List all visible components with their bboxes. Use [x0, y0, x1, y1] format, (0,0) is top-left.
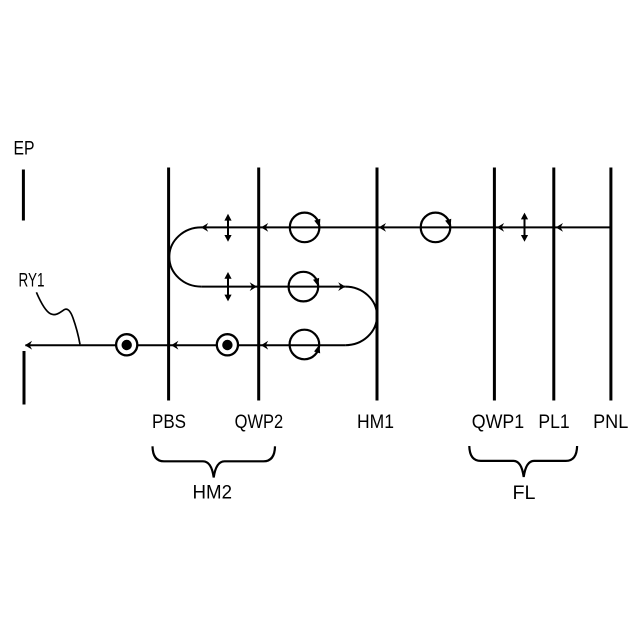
svg-text:EP: EP — [14, 139, 35, 160]
ray middle segment — [201, 286, 345, 288]
arrowhead top ray at HM1 — [379, 223, 386, 232]
circular polarization circle top-left — [290, 213, 323, 243]
svg-text:FL: FL — [513, 483, 536, 504]
element line HM1 — [376, 168, 379, 401]
ray bottom segment — [25, 344, 345, 346]
eye-point tick lower — [23, 351, 26, 405]
leader squiggle RY1 — [36, 292, 80, 344]
element line QWP1 — [493, 168, 496, 401]
circular polarization circle top-right — [421, 213, 454, 243]
svg-text:PNL: PNL — [593, 412, 628, 433]
polarization double-arrow middle between PBS QWP2 — [224, 272, 231, 301]
svg-text:RY1: RY1 — [19, 270, 45, 291]
ray U-turn arc left — [169, 227, 201, 286]
element line PBS — [167, 168, 170, 401]
arrowhead top ray at QWP2 — [261, 223, 268, 232]
element line PL1 — [552, 168, 555, 401]
svg-text:PBS: PBS — [152, 412, 186, 433]
circular polarization circle middle — [289, 272, 322, 302]
arrowhead bottom ray at PBS — [171, 341, 178, 350]
element line QWP2 — [257, 168, 260, 401]
dot-circle polarization symbol right — [217, 334, 238, 355]
ray top segment — [201, 226, 611, 228]
polarization double-arrow top between QWP1 PL1 — [521, 213, 528, 242]
arrowhead top ray at PL1 — [556, 223, 563, 232]
polarization double-arrow top between PBS QWP2 — [224, 214, 231, 242]
svg-text:PL1: PL1 — [538, 412, 569, 433]
dot-circle polarization symbol left — [116, 334, 137, 355]
arrowhead top ray at QWP1 — [497, 223, 504, 232]
eye-point tick upper — [22, 170, 25, 221]
svg-text:QWP1: QWP1 — [472, 412, 524, 433]
arrowhead top ray at arc start — [201, 223, 208, 232]
arrowhead middle ray before QWP2 — [250, 282, 257, 291]
arrowhead bottom ray at QWP2 — [261, 341, 268, 350]
circular polarization circle bottom — [290, 330, 323, 360]
ray U-turn arc right — [345, 287, 377, 346]
svg-text:HM1: HM1 — [357, 412, 394, 433]
brace HM2 group — [153, 446, 276, 477]
arrowhead bottom ray at left end — [25, 341, 32, 350]
element line PNL — [609, 168, 612, 401]
brace FL group — [469, 446, 577, 477]
svg-text:HM2: HM2 — [193, 483, 233, 504]
arrowhead middle ray at arc start — [338, 282, 345, 291]
svg-text:QWP2: QWP2 — [235, 412, 284, 433]
